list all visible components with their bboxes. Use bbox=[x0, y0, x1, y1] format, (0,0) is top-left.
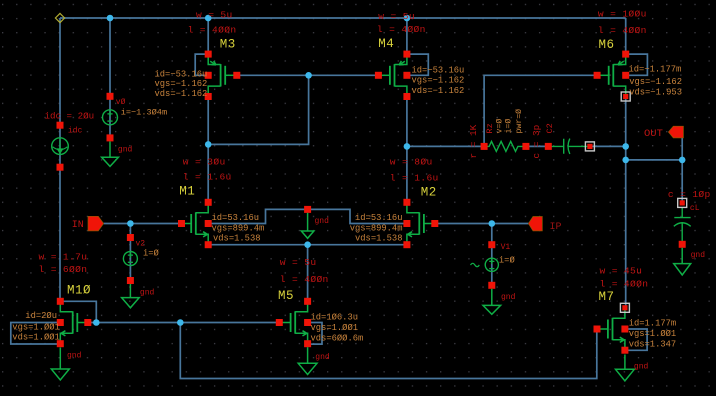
svg-text:w = 45u: w = 45u bbox=[600, 265, 643, 276]
wire M2 bulk to gnd bbox=[308, 209, 407, 223]
junction rail/v0 bbox=[107, 15, 114, 22]
svg-text:id=1Ø6.3u: id=1Ø6.3u bbox=[311, 313, 359, 323]
svg-text:v=Ø: v=Ø bbox=[495, 119, 505, 134]
junction output node bbox=[622, 157, 629, 164]
svg-text:vgs=899.4m: vgs=899.4m bbox=[350, 223, 403, 233]
svg-text:id=53.16u: id=53.16u bbox=[212, 213, 260, 223]
svg-text:w = 8Øu: w = 8Øu bbox=[390, 156, 433, 167]
ground symbol (M10) bbox=[51, 348, 81, 381]
svg-text:gnd: gnd bbox=[634, 363, 649, 372]
svg-text:r = 1K: r = 1K bbox=[468, 124, 479, 158]
transistor M7 bbox=[594, 265, 677, 353]
svg-text:id=1.177m: id=1.177m bbox=[629, 318, 677, 328]
wire to M6 gate bbox=[484, 75, 597, 146]
svg-text:id=−53.16u: id=−53.16u bbox=[155, 69, 208, 79]
svg-text:M5: M5 bbox=[278, 289, 294, 303]
svg-text:Rz: Rz bbox=[485, 123, 495, 133]
svg-text:vds=−1.162: vds=−1.162 bbox=[412, 86, 465, 96]
svg-text:IP: IP bbox=[550, 222, 562, 233]
svg-text:i=Ø: i=Ø bbox=[143, 248, 160, 258]
transistor M6 bbox=[594, 8, 682, 101]
svg-text:vds=1.538: vds=1.538 bbox=[213, 234, 261, 244]
svg-text:vgs=1.ØØ1: vgs=1.ØØ1 bbox=[12, 323, 60, 333]
svg-text:i=−1.3Ø4m: i=−1.3Ø4m bbox=[121, 107, 167, 117]
svg-text:M3: M3 bbox=[220, 38, 236, 52]
pin IP bbox=[528, 217, 561, 233]
svg-text:vgs=1.ØØ1: vgs=1.ØØ1 bbox=[629, 329, 677, 339]
capacitor C2 bbox=[531, 123, 595, 158]
wire idc/M10 column bbox=[59, 18, 61, 301]
junction OUT/CL node bbox=[679, 157, 686, 164]
wire M1 bulk to gnd bbox=[208, 209, 307, 223]
svg-text:vgs=1.ØØ1: vgs=1.ØØ1 bbox=[311, 323, 359, 333]
svg-text:pwr=Ø: pwr=Ø bbox=[514, 109, 524, 134]
ground symbol (bulk node) bbox=[301, 206, 329, 238]
svg-text:l = 4ØØn: l = 4ØØn bbox=[377, 24, 426, 35]
wire M10 diode connection bbox=[60, 301, 96, 322]
wire first stage output to Rz bbox=[407, 145, 484, 147]
voltage source v2 bbox=[123, 234, 159, 284]
svg-text:cL: cL bbox=[690, 204, 700, 213]
junction IN node bbox=[127, 220, 134, 227]
transistor M4 bbox=[375, 11, 464, 100]
junction gate line node bbox=[305, 72, 312, 79]
svg-text:l = 1.6u: l = 1.6u bbox=[183, 172, 232, 183]
voltage source v0 bbox=[103, 93, 168, 142]
junction IP node bbox=[489, 220, 496, 227]
current source idc bbox=[45, 110, 95, 170]
resistor Rz bbox=[468, 109, 529, 159]
svg-text:l = 4ØØn: l = 4ØØn bbox=[600, 278, 649, 289]
svg-text:vgs=−1.162: vgs=−1.162 bbox=[412, 75, 465, 85]
junction M4 drain/comp bbox=[404, 143, 411, 150]
svg-text:c = 3p: c = 3p bbox=[531, 125, 542, 159]
wire M3/M4 gate line bbox=[237, 74, 379, 76]
svg-text:w = 1ØØu: w = 1ØØu bbox=[598, 8, 647, 19]
svg-text:gnd: gnd bbox=[315, 353, 330, 362]
wire IN to M1 gate bbox=[104, 223, 182, 225]
junction rail/M3 bbox=[205, 15, 212, 22]
ground symbol (v0) bbox=[102, 142, 133, 167]
svg-text:c = 1Øp: c = 1Øp bbox=[668, 189, 711, 200]
wire IP node to V1 bbox=[491, 224, 493, 286]
svg-text:vØ: vØ bbox=[116, 98, 126, 107]
svg-text:id=−1.177m: id=−1.177m bbox=[629, 65, 682, 75]
svg-text:vds=1.538: vds=1.538 bbox=[355, 234, 403, 244]
svg-text:idc: idc bbox=[68, 127, 83, 136]
svg-text:gnd: gnd bbox=[140, 289, 155, 298]
svg-text:OUT: OUT bbox=[644, 128, 663, 140]
ground symbol (M7) bbox=[616, 355, 649, 381]
svg-text:w = 3Øu: w = 3Øu bbox=[183, 156, 226, 167]
svg-text:IN: IN bbox=[72, 220, 84, 231]
wire vdd rail bbox=[60, 17, 626, 19]
wire M4 drain to M2 drain bbox=[406, 97, 408, 203]
junction rail/M4 bbox=[404, 15, 411, 22]
svg-text:vds=6ØØ.6m: vds=6ØØ.6m bbox=[311, 333, 364, 343]
wire IN node to v2 bbox=[129, 224, 131, 281]
junction tail node bbox=[304, 241, 311, 248]
transistor M1 bbox=[178, 156, 264, 248]
junction bias split bbox=[177, 319, 184, 326]
wire bias line M10 to M5 gate bbox=[88, 322, 279, 324]
wire to CL bbox=[681, 160, 683, 203]
svg-text:l = 1.6u: l = 1.6u bbox=[390, 173, 439, 184]
svg-text:w = 5u: w = 5u bbox=[280, 257, 317, 268]
pin OUT bbox=[644, 126, 683, 140]
ground symbol (M5) bbox=[298, 347, 330, 374]
wire M7 bulk to source bbox=[625, 329, 647, 350]
svg-text:l = 4ØØn: l = 4ØØn bbox=[598, 25, 647, 36]
wire M4 source to rail bbox=[406, 18, 408, 54]
svg-text:id=2Øu: id=2Øu bbox=[25, 311, 57, 321]
svg-text:l = 4ØØn: l = 4ØØn bbox=[280, 274, 329, 285]
diamond net marker bbox=[55, 13, 64, 22]
wire tail node bbox=[208, 244, 407, 246]
wire M6 bulk to source bbox=[626, 54, 648, 75]
ground symbol (v2) bbox=[122, 284, 155, 308]
junction comp/output bbox=[622, 143, 629, 150]
svg-text:i=Ø: i=Ø bbox=[503, 119, 513, 134]
wire bias line to M7 gate bbox=[180, 323, 597, 379]
svg-text:vgs=899.4m: vgs=899.4m bbox=[212, 223, 265, 233]
svg-text:w = 5u: w = 5u bbox=[378, 11, 415, 22]
wire tail to M5 drain bbox=[307, 245, 309, 302]
ground symbol (CL) bbox=[674, 248, 706, 275]
transistor M3 bbox=[155, 10, 241, 100]
wire M3 drain to M1 drain bbox=[207, 97, 209, 203]
svg-text:id=−53.16u: id=−53.16u bbox=[412, 66, 465, 76]
svg-text:vds=−1.162: vds=−1.162 bbox=[155, 89, 208, 99]
svg-text:id=53.16u: id=53.16u bbox=[355, 213, 403, 223]
svg-text:vds=−1.953: vds=−1.953 bbox=[629, 87, 682, 97]
pin IN bbox=[72, 216, 104, 231]
svg-text:gnd: gnd bbox=[691, 251, 706, 260]
wire M6 source to rail bbox=[625, 18, 627, 54]
svg-text:l = 4ØØn: l = 4ØØn bbox=[188, 25, 237, 36]
svg-text:l = 6ØØn: l = 6ØØn bbox=[39, 264, 88, 275]
svg-text:V1: V1 bbox=[501, 243, 511, 252]
svg-text:gnd: gnd bbox=[315, 217, 330, 226]
wire output node link bbox=[626, 159, 683, 161]
svg-text:gnd: gnd bbox=[118, 146, 133, 155]
voltage source V1 bbox=[471, 241, 516, 289]
wire C2 to output node bbox=[590, 145, 626, 147]
svg-text:M6: M6 bbox=[599, 38, 615, 52]
svg-text:gnd: gnd bbox=[501, 293, 516, 302]
svg-text:gnd: gnd bbox=[67, 352, 82, 361]
svg-text:M2: M2 bbox=[421, 186, 437, 200]
svg-text:vds=1.ØØ1: vds=1.ØØ1 bbox=[12, 333, 60, 343]
wire M5 bulk to source bbox=[308, 323, 322, 345]
transistor M5 bbox=[276, 257, 363, 347]
junction M3 drain/diode bbox=[205, 141, 212, 148]
svg-text:w = 1.7u: w = 1.7u bbox=[39, 251, 88, 262]
svg-text:M4: M4 bbox=[378, 37, 394, 51]
svg-text:vds=1.347: vds=1.347 bbox=[629, 339, 677, 349]
ground symbol (V1) bbox=[483, 289, 516, 315]
svg-text:M1Ø: M1Ø bbox=[67, 284, 91, 298]
wire Rz to C2 bbox=[526, 145, 548, 147]
wire M3 source to rail bbox=[207, 18, 209, 54]
wire M3 diode connection bbox=[208, 75, 308, 144]
svg-text:w = 5u: w = 5u bbox=[196, 10, 233, 21]
svg-text:v2: v2 bbox=[136, 240, 146, 249]
wire M6 drain to M7 drain bbox=[625, 97, 627, 308]
svg-text:i=Ø: i=Ø bbox=[499, 256, 516, 266]
wire v0 column bbox=[109, 18, 111, 138]
transistor M10 bbox=[12, 251, 91, 347]
wire M10 bulk to source bbox=[11, 323, 61, 345]
svg-text:M1: M1 bbox=[179, 184, 195, 198]
transistor M2 bbox=[350, 156, 439, 248]
svg-text:vgs=−1.162: vgs=−1.162 bbox=[629, 77, 682, 87]
wire M4 bulk to source bbox=[407, 54, 428, 75]
junction bias/M10 bbox=[93, 319, 100, 326]
wire to OUT pin bbox=[681, 138, 683, 160]
wire M3 bulk to source bbox=[195, 54, 208, 75]
svg-text:idc = 2Øu: idc = 2Øu bbox=[45, 110, 95, 121]
svg-text:M7: M7 bbox=[599, 290, 615, 304]
wire M2 gate to IP bbox=[435, 223, 529, 225]
capacitor CL bbox=[668, 189, 711, 248]
svg-text:C2: C2 bbox=[545, 123, 555, 133]
svg-text:vgs=−1.162: vgs=−1.162 bbox=[155, 79, 208, 89]
